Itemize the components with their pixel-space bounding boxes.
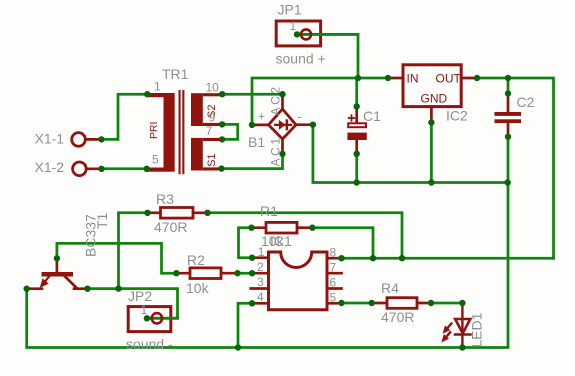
svg-text:R1: R1 <box>260 203 278 219</box>
svg-text:B1: B1 <box>248 134 265 150</box>
svg-text:TR1: TR1 <box>162 66 189 82</box>
svg-text:9: 9 <box>209 111 216 125</box>
svg-text:sound -: sound - <box>126 336 173 352</box>
svg-text:10: 10 <box>206 81 220 95</box>
svg-text:PRI: PRI <box>148 122 160 140</box>
svg-text:R2: R2 <box>187 252 205 268</box>
svg-text:IC1: IC1 <box>270 233 292 249</box>
svg-text:+: + <box>258 110 265 124</box>
svg-text:-: - <box>298 110 302 124</box>
svg-text:1: 1 <box>141 303 148 317</box>
svg-text:7: 7 <box>206 124 213 138</box>
svg-text:1: 1 <box>258 245 265 259</box>
svg-text:LED1: LED1 <box>469 312 485 347</box>
svg-text:7: 7 <box>330 261 337 275</box>
svg-text:470R: 470R <box>381 309 414 325</box>
svg-text:X1-1: X1-1 <box>35 130 65 146</box>
svg-text:OUT: OUT <box>436 72 462 86</box>
svg-text:JP2: JP2 <box>128 288 152 304</box>
svg-text:sound +: sound + <box>276 51 326 67</box>
svg-text:5: 5 <box>330 291 337 305</box>
svg-text:AC1: AC1 <box>269 135 283 166</box>
svg-text:IC2: IC2 <box>446 108 468 124</box>
svg-text:AC2: AC2 <box>269 84 283 115</box>
svg-text:X1-2: X1-2 <box>35 159 65 175</box>
svg-text:5: 5 <box>152 153 159 167</box>
svg-text:S1: S1 <box>206 153 218 166</box>
svg-text:470R: 470R <box>154 219 187 235</box>
svg-text:1: 1 <box>290 19 297 33</box>
svg-text:T1: T1 <box>94 212 110 229</box>
svg-text:10k: 10k <box>186 280 210 296</box>
svg-text:3: 3 <box>257 275 264 289</box>
svg-text:C1: C1 <box>363 108 381 124</box>
svg-text:R3: R3 <box>156 191 174 207</box>
svg-text:2: 2 <box>257 260 264 274</box>
svg-text:C2: C2 <box>517 94 535 110</box>
svg-text:6: 6 <box>330 276 337 290</box>
svg-text:R4: R4 <box>381 280 399 296</box>
svg-text:8: 8 <box>330 246 337 260</box>
svg-text:GND: GND <box>421 92 448 106</box>
svg-text:JP1: JP1 <box>278 2 302 18</box>
svg-text:4: 4 <box>257 290 264 304</box>
svg-text:IN: IN <box>407 72 419 86</box>
svg-text:1: 1 <box>154 80 161 94</box>
